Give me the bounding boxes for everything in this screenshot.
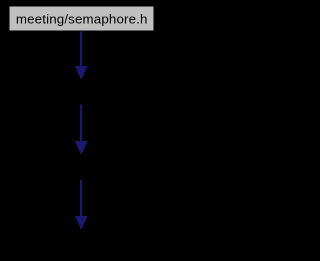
wire: edge 2 line (80, 105, 82, 142)
arrowhead: edge 1 (75, 66, 88, 80)
arrowhead: edge 2 (75, 141, 88, 155)
svg-text:meeting/semaphore.h: meeting/semaphore.h (16, 11, 148, 26)
wire: edge 1 line (80, 32, 82, 68)
arrowhead: edge 3 (75, 216, 88, 230)
wire: edge 3 line (80, 180, 82, 217)
node N0: meeting/semaphore.h (10, 7, 154, 31)
